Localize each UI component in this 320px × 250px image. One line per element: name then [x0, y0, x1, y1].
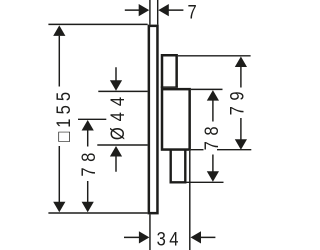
wall plate [149, 26, 158, 213]
extension line dia44 bottom [97, 144, 147, 146]
dim line 7 top [125, 9, 184, 11]
extension line plate top left [48, 23, 147, 25]
extension line dia44 top [98, 90, 147, 92]
extension line body top right [178, 55, 251, 57]
svg-text:34: 34 [157, 228, 182, 250]
arrow 34 pointing-right [139, 231, 150, 243]
arrow 79 up [235, 57, 247, 68]
arrow sq155 up [53, 25, 65, 36]
extension line body right bottom [189, 151, 191, 250]
arrow 78L up [82, 120, 94, 131]
arrow 34 pointing-left [191, 231, 202, 243]
extension line box2 top right [191, 88, 223, 90]
arrow 78R up [207, 90, 219, 101]
svg-text:7: 7 [187, 1, 196, 23]
dim line 78 left [87, 130, 89, 202]
svg-text:Ø44: Ø44 [107, 91, 129, 140]
svg-text:79: 79 [226, 86, 248, 115]
svg-text:78: 78 [201, 121, 223, 150]
svg-text:78: 78 [78, 147, 100, 176]
arrow 79 down [235, 139, 247, 150]
arrow 7 right-pointing-left [158, 4, 169, 16]
extension line plate left face top [149, 0, 151, 25]
dim line sq155 [58, 36, 60, 203]
arrow 78R down [207, 171, 219, 182]
dim line 79 right [240, 66, 242, 140]
arrow 7 left-pointing-right [139, 4, 150, 16]
extension line knob bottom right [187, 181, 224, 183]
arrow dia44 down [110, 80, 122, 91]
dim line 78 right [212, 100, 214, 172]
arrow 78L down [82, 202, 94, 213]
cartridge housing box1 [161, 55, 178, 88]
arrow sq155 down [53, 202, 65, 213]
handle knob box3 [170, 149, 187, 182]
valve body box2 [162, 89, 190, 149]
extension line plate right face top [157, 0, 159, 25]
arrow dia44 up [110, 146, 122, 157]
svg-text:□155: □155 [53, 88, 75, 142]
dim line dia44 [115, 67, 117, 172]
extension line baseline bottom left [48, 212, 147, 214]
dim line 34 bottom [124, 236, 215, 238]
extension line axis 78 left [78, 118, 106, 120]
extension line body bottom right [191, 149, 251, 151]
extension line plate left face bottom [149, 214, 151, 250]
